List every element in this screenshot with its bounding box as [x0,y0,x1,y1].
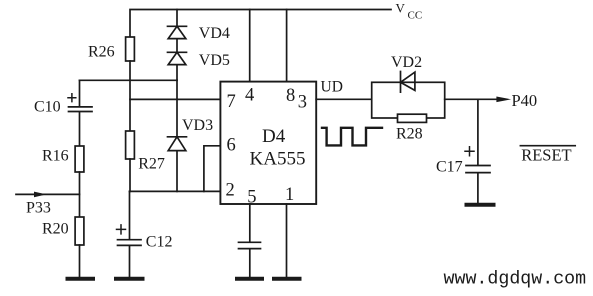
wire P33 input [16,193,80,195]
svg-text:C17: C17 [436,159,463,176]
op-amp U1 / timer IC D4 KA555 box [220,82,316,204]
ground under pin5 cap [237,277,262,281]
svg-text:www.dgdqw.com: www.dgdqw.com [444,270,587,290]
node UD label [321,79,343,96]
svg-text:C10: C10 [34,98,61,115]
svg-text:P33: P33 [26,199,51,216]
wire R20 to ground [79,245,81,277]
ground under R20 [68,277,94,281]
capacitor C12 [118,191,142,277]
VD2/R28 parallel box [372,82,445,118]
wire node row C10/R26/VD line [80,79,178,81]
resistor R28 [398,114,427,122]
svg-text:KA555: KA555 [250,149,306,170]
wire pin4 [249,10,251,82]
diode VD4 [168,26,187,52]
svg-text:P40: P40 [512,91,538,110]
capacitor pin5 bypass [239,242,261,277]
diode VD3 [168,137,187,192]
wire R27 bottom lead [129,159,131,191]
svg-text:8: 8 [286,86,295,106]
wire VD4 top lead [176,10,178,27]
svg-text:4: 4 [245,86,254,106]
diode VD5 [168,52,187,80]
svg-text:UD: UD [321,79,343,96]
svg-text:6: 6 [227,136,236,156]
ground under C17 [467,203,494,207]
square wave symbol [322,128,382,146]
svg-text:VD3: VD3 [182,117,213,134]
svg-text:RESET: RESET [521,146,571,165]
svg-text:VD5: VD5 [199,52,230,69]
svg-text:3: 3 [298,92,307,112]
wire pin6 link to pin2 row [204,146,221,192]
arrow P40 [496,97,511,103]
svg-text:V: V [396,0,406,15]
wire pin5 to cap [249,204,251,242]
wire box to P40 [445,98,497,100]
svg-text:D4: D4 [262,126,286,147]
wire pin7 row [130,98,220,100]
wire pin2 row [130,190,221,192]
capacitor C10 [69,80,93,146]
resistor R20 [75,217,84,245]
resistor R27 [126,131,135,159]
svg-text:1: 1 [285,185,294,205]
svg-text:5: 5 [247,187,256,207]
svg-text:R26: R26 [88,44,115,61]
wire pin3 to snubber box [316,98,372,100]
watermark www.dgdqw.com [444,270,587,290]
ground under C12 [116,277,143,281]
wire pin1 to ground [286,204,288,277]
ground under pin1 [274,277,300,281]
wire R26 to R27 (crosses node rows) [129,61,131,131]
wire pin8 [286,10,288,82]
resistor R16 [75,146,84,172]
svg-text:VD4: VD4 [199,25,230,42]
resistor R26 [126,37,135,61]
svg-text:R28: R28 [396,125,423,142]
wire R16 to R20 [79,172,81,217]
diode VD2 [401,72,415,93]
svg-text:VD2: VD2 [391,54,422,71]
svg-text:CC: CC [408,10,423,22]
svg-text:2: 2 [226,181,235,201]
capacitor C17 [466,99,490,203]
svg-text:R20: R20 [42,221,69,238]
svg-text:7: 7 [227,92,236,112]
wire VD3 top lead [176,80,178,137]
node VCC label [396,0,423,21]
svg-text:C12: C12 [146,234,173,251]
arrow P33 [34,192,47,198]
wire VCC rail top [130,10,391,38]
node RESET label with overline [520,145,575,147]
svg-text:R16: R16 [42,148,69,165]
svg-text:R27: R27 [138,156,165,173]
